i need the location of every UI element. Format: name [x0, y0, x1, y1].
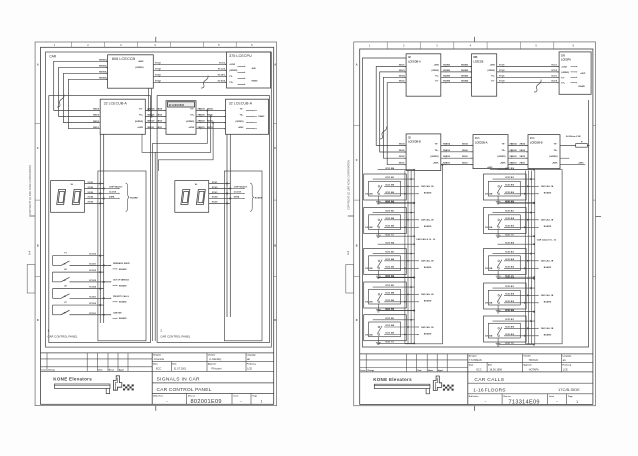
svg-text:–: – [166, 399, 168, 403]
switch group 4 row 2 wire [70, 314, 111, 316]
sheet 2 A-4 format box [346, 265, 354, 294]
svg-text:806 LCECCB: 806 LCECCB [112, 56, 136, 61]
svg-text:XB1/1: XB1/1 [399, 163, 406, 165]
svg-text:Dept.: Dept. [153, 363, 158, 366]
call group L2 [364, 200, 434, 237]
svg-text:XC12/1: XC12/1 [89, 313, 97, 315]
wires from 806 LCECCB bottom to unit connectors [148, 88, 150, 110]
svg-text:XB1/6: XB1/6 [520, 150, 527, 152]
svg-text:XB1/3: XB1/3 [399, 70, 406, 72]
sheet 2 title rows right part [468, 361, 593, 363]
svg-text:XC1/1: XC1/1 [551, 75, 558, 77]
svg-text:CAR CALLS 10 - 16: CAR CALLS 10 - 16 [537, 239, 557, 242]
switch blade T1 [53, 264, 62, 266]
switch group 2 row 2 wire [70, 281, 111, 283]
svg-text:DATA: DATA [234, 195, 240, 198]
svg-text:Name: Name [109, 369, 114, 371]
sheet 2 title columns right part [522, 354, 524, 372]
sheet 1 paper (SIGNALS IN CAR) [35, 42, 277, 406]
svg-text:XB1/6: XB1/6 [93, 115, 100, 117]
svg-text:+KNX: +KNX [561, 67, 567, 69]
cable marker before LCECPU [534, 80, 541, 92]
svg-text:Date: Date [172, 363, 176, 366]
svg-text:LCECOB-B: LCECOB-B [408, 141, 421, 144]
svg-text:RS485: RS485 [252, 79, 258, 82]
svg-text:+KNX: +KNX [229, 64, 235, 66]
svg-text:XC3/2: XC3/2 [212, 187, 219, 189]
svg-text:1-16 FLOORS: 1-16 FLOORS [473, 387, 506, 393]
svg-text:Checker: Checker [208, 355, 216, 357]
svg-text:XC1/5: XC1/5 [219, 62, 226, 64]
svg-text:BOARD: BOARD [119, 317, 127, 320]
svg-text:KONE Elevators: KONE Elevators [53, 377, 92, 382]
svg-text:ECC: ECC [476, 368, 481, 371]
sheet 1 zone ticks left and right [35, 123, 40, 125]
svg-text:Product g.: Product g. [562, 363, 572, 366]
svg-text:(U/RNX): (U/RNX) [497, 156, 505, 158]
sheet 1 A-4 format box [27, 265, 35, 294]
svg-text:32 LCECUB-A: 32 LCECUB-A [229, 102, 253, 106]
board 375 LCECPU (top row) [559, 52, 591, 94]
sheet 2 zone ticks left and right [354, 125, 360, 127]
svg-text:XB1B/4: XB1B/4 [461, 80, 469, 83]
svg-text:XT1/2: XT1/2 [499, 81, 505, 83]
svg-text:+KNX: +KNX [238, 127, 244, 129]
svg-text:XT1/1: XT1/1 [499, 75, 505, 77]
svg-text:SIGNALS IN CAR: SIGNALS IN CAR [157, 376, 201, 382]
svg-text:32 LCECUB-B: 32 LCECUB-B [169, 105, 185, 107]
svg-text:CAR: CAR [49, 55, 57, 59]
svg-text:XBB1/1: XBB1/1 [147, 127, 155, 129]
svg-text:XB1/4: XB1/4 [93, 108, 100, 111]
svg-text:+KNX: +KNX [578, 163, 584, 165]
svg-text:XC12/6: XC12/6 [89, 303, 97, 305]
wire KNX bus 1 [54, 61, 108, 110]
svg-text:XBB1/2: XBB1/2 [510, 156, 518, 158]
svg-text:XB1/2: XB1/2 [93, 121, 100, 123]
svg-text:713314E09: 713314E09 [509, 399, 540, 405]
svg-text:806: 806 [473, 56, 478, 59]
svg-text:XC1/4: XC1/4 [551, 80, 558, 83]
svg-text:Appd: Appd [119, 368, 125, 371]
svg-text:XC3/5: XC3/5 [212, 202, 219, 204]
svg-text:XC10/5: XC10/5 [89, 280, 97, 282]
+KNX feed wire right column [490, 169, 562, 171]
board 32 LCECOB-A (top row) [406, 54, 441, 96]
svg-text:–: – [556, 400, 558, 404]
svg-text:XB1/1: XB1/1 [520, 163, 527, 165]
svg-text:XC10/6: XC10/6 [89, 254, 97, 256]
sheet 2 riser wire 1 [376, 67, 406, 146]
svg-text:Designer: Designer [153, 355, 161, 357]
wires LCECOB-A to LCECCB top row [441, 66, 472, 68]
svg-text:375 LCECPU: 375 LCECPU [229, 54, 252, 58]
svg-text:XB1/2: XB1/2 [399, 81, 406, 83]
svg-text:XC10/1: XC10/1 [89, 263, 97, 265]
svg-text:B: B [274, 245, 276, 248]
svg-text:XB1/6: XB1/6 [399, 150, 406, 152]
board 10:1 LCECOB-A (mid row) [473, 135, 508, 169]
title block columns right part [206, 353, 208, 371]
CAR enclosure box [46, 52, 272, 347]
svg-text:CAR CONTROL PANEL: CAR CONTROL PANEL [157, 387, 212, 393]
mid row wires LCECOB-A to LCECOB-B2 [508, 144, 528, 146]
cable marker on vertical bundle [57, 95, 64, 107]
svg-text:A-4: A-4 [27, 250, 31, 255]
call group L4 [364, 275, 434, 312]
svg-text:A: A [37, 64, 39, 67]
svg-text:XBB1/1: XBB1/1 [198, 127, 206, 129]
title block rows right part [152, 361, 274, 363]
svg-text:XB1B/2: XB1B/2 [443, 70, 451, 72]
svg-text:CAR FAN: CAR FAN [113, 311, 122, 314]
svg-text:XBB1/6: XBB1/6 [198, 115, 206, 117]
sheet 2 fold marks [474, 37, 476, 42]
svg-text:XC3/1: XC3/1 [212, 182, 219, 184]
svg-text:+KNX: +KNX [137, 127, 143, 129]
call group L1 [364, 167, 434, 204]
svg-text:XB1/6: XB1/6 [157, 115, 164, 117]
svg-text:XC3/2: XC3/2 [88, 187, 95, 189]
sheet 2 zone ticks top [386, 42, 388, 49]
svg-text:C: C [37, 147, 39, 150]
call group R4 [484, 276, 554, 313]
board 10:1 LCECOB-B (mid row) [528, 135, 560, 169]
svg-text:LCECCB: LCECCB [473, 61, 483, 64]
svg-text:XC3/5: XC3/5 [88, 202, 95, 204]
sheet 2 title rows left part [360, 359, 468, 361]
board 806 LCECCB (top row) [472, 54, 497, 96]
svg-text:XB1/2: XB1/2 [157, 121, 164, 123]
svg-text:ECC: ECC [156, 368, 161, 371]
svg-text:Date: Date [98, 368, 102, 371]
board 806 LCECCB [108, 55, 154, 88]
svg-text:1.: 1. [48, 328, 51, 332]
svg-text:D: D [274, 319, 276, 322]
svg-text:XT1/2: XT1/2 [155, 68, 162, 70]
board 32 LCECUB-A no.2 [226, 99, 269, 134]
sheet 2 title block outline [360, 353, 593, 355]
car enclosure outline sheet 2 [362, 58, 588, 347]
junction dots on 806 drop wires [148, 110, 150, 112]
junction dots on staircase taps [207, 110, 209, 112]
call group R1 [484, 167, 554, 204]
svg-text:C: C [274, 147, 276, 150]
board 32 LCECUB-B [166, 101, 196, 135]
switch group 3 row 2 wire [70, 297, 111, 299]
svg-text:Approver: Approver [523, 363, 532, 366]
svg-text:RS485: RS485 [259, 115, 265, 118]
sheet 2 riser wire 4 [387, 83, 406, 165]
svg-text:CAR CONTROL PANEL: CAR CONTROL PANEL [48, 334, 78, 338]
display 1 board brace [126, 183, 130, 211]
svg-text:XB1/1: XB1/1 [157, 127, 164, 129]
svg-text:HOTAPA: HOTAPA [529, 368, 539, 371]
svg-text:R=105ohm 0.5W: R=105ohm 0.5W [566, 136, 581, 138]
svg-text:XBB1/2: XBB1/2 [198, 121, 206, 123]
svg-text:+KNX: +KNX [434, 65, 440, 67]
drop wire from LCECUB-A1 bottom to staircase [142, 134, 155, 152]
svg-text:J.Kantola: J.Kantola [154, 358, 165, 361]
svg-text:XC1/5: XC1/5 [551, 70, 558, 72]
svg-text:CHIP SELECT: CHIP SELECT [234, 187, 248, 189]
svg-text:BOARD: BOARD [255, 196, 263, 199]
svg-text:A-4: A-4 [346, 250, 350, 255]
svg-text:+KNX: +KNX [138, 61, 144, 63]
svg-text:32 LCECUB-A: 32 LCECUB-A [104, 102, 128, 106]
svg-text:(U/RNX): (U/RNX) [229, 70, 237, 72]
svg-text:Drw. no.: Drw. no. [188, 396, 196, 398]
svg-text:802001E09: 802001E09 [191, 399, 222, 405]
wires 806 LCECCB to 375 LCECPU [153, 63, 226, 65]
switch group 1 row 2 wire [70, 264, 111, 266]
sheet 2 riser wire 2 [380, 72, 406, 152]
car panel 2 outer box [157, 96, 269, 343]
svg-text:XC3/4: XC3/4 [212, 196, 219, 199]
svg-text:XBB1/4: XBB1/4 [510, 142, 518, 145]
svg-text:+KNX: +KNX [188, 127, 194, 129]
svg-text:XBB1/6: XBB1/6 [510, 150, 518, 152]
mid row right arrows [560, 157, 568, 159]
svg-text:XC14/1: XC14/1 [89, 295, 97, 298]
svg-text:HKOIVA: HKOIVA [529, 359, 539, 362]
svg-text:CHIP SELECT: CHIP SELECT [109, 187, 123, 189]
board 32 LCECOB-B (mid row) [406, 134, 441, 171]
svg-text:XBB1/1: XBB1/1 [510, 163, 518, 165]
svg-text:+KNX: +KNX [552, 163, 558, 165]
svg-text:XBB1/4: XBB1/4 [147, 108, 155, 111]
svg-text:XB1/1: XB1/1 [399, 65, 406, 67]
switch blade 20 [53, 297, 62, 299]
sheet 2 paper (CAR CALLS) [354, 42, 596, 406]
svg-text:Name: Name [428, 370, 433, 372]
svg-text:XT2/1: XT2/1 [155, 74, 162, 76]
svg-text:+SUP: +SUP [580, 73, 586, 75]
svg-text:Change: Change [367, 370, 374, 372]
call group L3 [364, 241, 434, 278]
svg-text:Product g.: Product g. [247, 363, 257, 366]
svg-text:COPYRIGHT (C) 1997 KONE CORPOR: COPYRIGHT (C) 1997 KONE CORPORATION [348, 160, 351, 210]
svg-text:(U/RNX): (U/RNX) [430, 156, 438, 158]
svg-text:Issue: Issue [234, 396, 239, 398]
svg-text:Appd: Appd [438, 369, 444, 372]
svg-text:XC14/4: XC14/4 [89, 286, 97, 289]
mid wire rows segment LCECUB-B to LCECUB-A2 [196, 109, 226, 111]
car position display 2 [175, 181, 209, 213]
svg-text:18.06.1996: 18.06.1996 [489, 368, 502, 371]
mid wire rows segment LCECUB-A1 to LCECUB-B [145, 109, 166, 111]
sheet 2 title columns left part [365, 354, 367, 372]
svg-text:XC1S/1: XC1S/1 [218, 74, 226, 76]
serial bus pair panel 1 [99, 134, 101, 323]
svg-text:XC10/2: XC10/2 [89, 270, 97, 272]
display 1 pin wires to bus [85, 183, 104, 185]
svg-text:XC3/3: XC3/3 [88, 192, 95, 194]
svg-text:CLOCK: CLOCK [234, 192, 242, 194]
svg-text:2.: 2. [160, 328, 163, 332]
svg-text:XT2/2: XT2/2 [155, 80, 162, 82]
panel 1 board inner box [98, 171, 146, 341]
svg-text:XB1/4: XB1/4 [399, 74, 406, 77]
svg-text:LCECOB-A: LCECOB-A [408, 61, 421, 64]
svg-text:Date: Date [418, 369, 422, 372]
svg-text:CAR CONTROL PANEL: CAR CONTROL PANEL [160, 334, 190, 338]
board 375 LCECPU [227, 52, 271, 88]
svg-text:XB1B/2: XB1B/2 [461, 70, 469, 72]
svg-text:+KNX: +KNX [490, 65, 496, 67]
svg-text:A.Jokiniitty: A.Jokiniitty [209, 358, 222, 361]
svg-text:XB1/1: XB1/1 [207, 127, 214, 129]
svg-text:XB1/2: XB1/2 [462, 156, 469, 158]
svg-text:(U/RNX): (U/RNX) [431, 70, 439, 72]
svg-text:XB1/6: XB1/6 [462, 150, 469, 152]
svg-text:KONE Elevators: KONE Elevators [373, 377, 412, 382]
svg-text:Dept.: Dept. [469, 363, 474, 366]
svg-text:17C/B-SIDE: 17C/B-SIDE [558, 387, 580, 392]
call group R5 [484, 309, 554, 346]
svg-text:XB1B/4: XB1B/4 [99, 76, 107, 79]
switch blade 27 [53, 314, 62, 316]
svg-text:LCECOB-B: LCECOB-B [530, 141, 543, 144]
svg-text:10 1: 10 1 [475, 137, 480, 140]
svg-text:RS485: RS485 [579, 85, 586, 88]
routing staircase wires to panel 2 [153, 110, 208, 341]
svg-text:1: 1 [576, 400, 578, 404]
svg-text:LCE: LCE [247, 368, 252, 371]
svg-text:C: C [356, 159, 358, 162]
sheet 1 zone ticks top [71, 42, 73, 47]
display 1 signal name rows [104, 188, 119, 190]
svg-text:D: D [356, 319, 358, 322]
svg-text:XB1/4: XB1/4 [399, 142, 406, 145]
svg-text:XT1/1: XT1/1 [155, 62, 162, 64]
svg-text:XB1/4: XB1/4 [520, 142, 527, 145]
svg-text:Page: Page [568, 396, 573, 398]
svg-text:XC1U/4: XC1U/4 [218, 79, 226, 82]
switch blade 66 [53, 281, 62, 283]
svg-text:XB1B/3: XB1B/3 [461, 65, 469, 67]
svg-text:–: – [485, 400, 487, 404]
call bus quad right column [525, 171, 527, 344]
svg-text:31.07.2001: 31.07.2001 [174, 368, 187, 371]
svg-text:XBB1/4: XBB1/4 [443, 142, 451, 145]
svg-text:A: A [356, 64, 358, 67]
svg-text:XB1/1: XB1/1 [462, 163, 469, 165]
svg-text:LCECPU: LCECPU [561, 59, 571, 62]
board 32 LCECUB-A no.1 [100, 99, 145, 134]
svg-text:LCE: LCE [563, 368, 568, 371]
svg-text:LCECOB-A: LCECOB-A [475, 141, 488, 144]
svg-text:Drbl.ref.no: Drbl.ref.no [153, 396, 163, 398]
wire KNX bus 3 [64, 73, 108, 122]
call group R2 [484, 200, 554, 237]
cable marker on sheet 2 riser [380, 127, 387, 139]
svg-text:Issue: Issue [549, 396, 554, 398]
svg-text:BOARD: BOARD [119, 268, 127, 271]
svg-text:DATA: DATA [109, 195, 115, 198]
svg-text:XB1B/6: XB1B/6 [443, 75, 451, 77]
svg-text:XC3/1: XC3/1 [88, 182, 95, 184]
svg-text:COPYRIGHT (C) 2001 KONE CORPOR: COPYRIGHT (C) 2001 KONE CORPORATION [29, 165, 32, 215]
svg-text:BOARD: BOARD [130, 196, 138, 199]
svg-text:10 1: 10 1 [530, 137, 535, 140]
serial bus pair panel 2 [226, 134, 228, 317]
display 2 board brace [250, 183, 254, 211]
sheet 2 drawing frame [360, 49, 593, 404]
svg-text:XT1/2: XT1/2 [499, 70, 505, 72]
svg-text:BOARD: BOARD [119, 284, 127, 287]
svg-text:XB1/4: XB1/4 [157, 108, 164, 111]
svg-text:XC3/3: XC3/3 [212, 192, 219, 194]
svg-text:–: – [240, 399, 242, 403]
svg-text:+KNX: +KNX [487, 167, 493, 169]
sheet 1 fold marks [155, 37, 157, 42]
svg-text:XB1/2: XB1/2 [520, 156, 527, 158]
svg-text:XC1L/8: XC1L/8 [218, 68, 226, 70]
svg-text:Approver: Approver [208, 363, 217, 366]
svg-text:Language: Language [247, 355, 256, 357]
svg-text:XB1B/3: XB1B/3 [443, 65, 451, 67]
svg-text:XBB1/4: XBB1/4 [198, 108, 206, 111]
sheet 1 title block outline [41, 352, 274, 354]
svg-text:P.Hucteri: P.Hucteri [212, 368, 222, 371]
svg-text:+KNX: +KNX [433, 163, 439, 165]
call bus quad left column [404, 171, 406, 344]
svg-text:XT1/1: XT1/1 [499, 65, 505, 67]
svg-text:XBB1/1: XBB1/1 [443, 163, 451, 165]
svg-text:B: B [37, 245, 39, 248]
call group L5 [364, 308, 434, 345]
svg-text:Change: Change [48, 369, 55, 371]
svg-text:XBB1/2: XBB1/2 [147, 121, 155, 123]
svg-text:(U/RNX): (U/RNX) [186, 121, 194, 123]
svg-text:OUT OF SERVICE: OUT OF SERVICE [113, 280, 130, 282]
svg-text:XB1B/6: XB1B/6 [461, 75, 469, 77]
display 2 signal name rows [230, 188, 243, 190]
svg-text:XB1B/4: XB1B/4 [443, 80, 451, 83]
mid row wires LCECOB-B to LCECOB-A [441, 144, 473, 146]
svg-text:375: 375 [561, 54, 566, 57]
svg-text:Page: Page [253, 396, 258, 398]
svg-text:Date: Date [488, 363, 492, 366]
svg-text:Drbl.ref.no: Drbl.ref.no [469, 396, 479, 398]
svg-text:XC1/1: XC1/1 [551, 65, 558, 67]
svg-text:XBB1/2: XBB1/2 [443, 156, 451, 158]
sheet 1 drawing frame [41, 47, 274, 404]
svg-text:FIREMAN'S DRIVE: FIREMAN'S DRIVE [113, 262, 130, 265]
svg-text:(U/RNX): (U/RNX) [561, 72, 569, 74]
+KNX return wire left column [405, 165, 443, 344]
car panel 1 outer box [49, 96, 151, 343]
svg-text:XB1/4: XB1/4 [462, 142, 469, 145]
svg-text:(U/RNX): (U/RNX) [549, 156, 557, 158]
svg-text:XB1/1: XB1/1 [93, 127, 100, 129]
svg-text:(U/RNX): (U/RNX) [135, 67, 143, 69]
title block rows left part [41, 358, 153, 360]
wire KNX bus 4 [68, 79, 107, 128]
svg-text:PRIORITY CALLS: PRIORITY CALLS [113, 295, 129, 298]
svg-text:Language: Language [562, 356, 571, 358]
svg-text:CAR CALLS 10 - 16: CAR CALLS 10 - 16 [416, 238, 436, 241]
svg-text:XB1/2: XB1/2 [399, 156, 406, 158]
wire KNX bus 2 [59, 67, 108, 116]
svg-text:1: 1 [261, 400, 263, 404]
svg-text:D: D [37, 319, 39, 322]
svg-text:T.SYRMAN: T.SYRMAN [469, 359, 482, 362]
svg-text:A: A [274, 64, 276, 67]
call group R3 [484, 241, 554, 278]
svg-text:B: B [356, 245, 358, 248]
